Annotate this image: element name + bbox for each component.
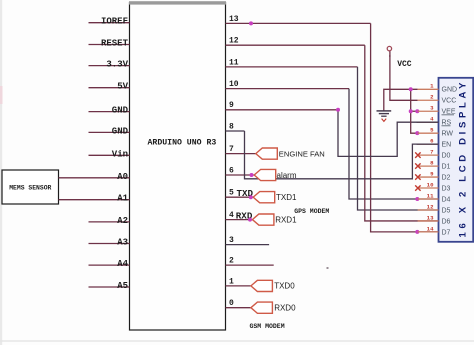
svg-text:RESET: RESET [101,39,129,49]
pin 6 (Arduino right) [226,166,255,175]
pin 11 (Arduino right) [226,58,358,67]
pin A5 (Arduino left) [89,281,130,291]
pin A0 (Arduino left) [89,172,130,182]
terminal alarm [254,169,297,180]
wire LCD pin1 GND [384,89,418,111]
svg-text:2: 2 [430,94,434,101]
pin Vin (Arduino left) [89,149,130,159]
svg-text:7: 7 [430,149,434,156]
pin RESET (Arduino left) [89,39,130,49]
svg-text:D0: D0 [442,153,451,160]
module LCD1 16x2 LCD DISPLAY body [439,78,474,242]
junction on D4 wire [415,197,419,201]
LCD pin 13 D6 [418,214,451,225]
pin 3.3V (Arduino left) [89,60,130,70]
LCD pin 8 D1 [418,159,451,170]
wire pin10 to LCD D4 [349,89,439,199]
svg-text:D1: D1 [442,163,451,170]
svg-text:A2: A2 [117,216,128,226]
svg-text:ENGINE FAN: ENGINE FAN [279,149,325,158]
svg-text:9: 9 [229,101,234,110]
svg-text:A4: A4 [117,259,128,269]
svg-text:5: 5 [229,189,234,198]
wire MEMS to A0 [59,177,89,179]
pin 7 (Arduino right) [226,145,256,154]
svg-text:ARDUINO UNO R3: ARDUINO UNO R3 [148,139,217,148]
pin IOREF (Arduino left) [89,17,130,27]
LCD pin 10 D3 [418,181,451,192]
svg-text:11: 11 [229,58,239,67]
svg-text:6: 6 [229,166,234,175]
junction TXD1 tip [249,195,253,199]
pin 5V (Arduino left) [89,82,130,92]
LCD pin 2 VCC [418,94,457,105]
module U1 ARDUINO UNO R3 body [130,3,226,331]
svg-text:12: 12 [427,203,434,210]
pin A1 (Arduino left) [89,194,130,204]
wire VCC to LCD pin2 [390,55,418,100]
terminal TXD1 [253,192,297,203]
junction VEE row [409,109,413,113]
svg-text:GND: GND [112,126,129,136]
svg-text:MEMS SENSOR: MEMS SENSOR [9,184,51,191]
pin 3 (Arduino right) [226,236,270,245]
svg-text:A3: A3 [117,238,128,248]
wire EN overlay [417,143,439,145]
pin A3 (Arduino left) [89,238,130,248]
terminal RXD0 [251,302,296,313]
svg-text:3.3V: 3.3V [106,60,128,70]
junction on D7 wire [415,230,419,234]
svg-text:13: 13 [427,214,434,221]
svg-text:8: 8 [430,159,434,166]
no-connect X on LCD D0 [415,152,420,157]
junction on pin 9 corner [336,108,340,112]
pin 4 (Arduino right) [226,211,253,220]
svg-text:D2: D2 [442,174,451,181]
svg-text:12: 12 [229,37,239,46]
svg-text:11: 11 [427,192,434,199]
terminal RXD1 [252,214,297,225]
pin 1 (Arduino right) [226,277,251,286]
pin 9 (Arduino right) [226,101,339,110]
ground [377,111,392,122]
svg-text:VCC: VCC [442,98,457,105]
svg-text:RXD0: RXD0 [274,304,296,313]
svg-text:13: 13 [229,15,239,24]
svg-text:5: 5 [430,127,434,134]
svg-text:10: 10 [229,80,239,89]
svg-text:A5: A5 [117,281,128,291]
svg-text:10: 10 [427,181,434,188]
junction GND/VEE vertical top [409,87,413,91]
LCD pin 3 VEE [418,105,456,116]
wire pin11 to LCD D5 [358,67,439,210]
no-connect X on LCD D3 [415,185,420,190]
pin GND (Arduino left) [89,126,130,136]
wire pin9 to LCD RS [338,110,439,157]
svg-text:9: 9 [430,170,434,177]
LCD pin 6 EN [418,138,452,149]
svg-text:A1: A1 [117,194,128,204]
junction RXD1 tip [248,218,252,222]
svg-text:2: 2 [229,257,234,266]
svg-text:alarm: alarm [277,171,297,180]
svg-text:IOREF: IOREF [101,17,128,27]
svg-text:D7: D7 [442,229,451,236]
LCD pin 9 D2 [418,170,451,181]
pin 12 (Arduino right) [226,37,365,46]
svg-text:Vin: Vin [112,149,128,159]
svg-text:0: 0 [229,299,234,308]
decor [0,0,2,345]
wire RS overlay [417,121,439,123]
svg-text:7: 7 [229,145,234,154]
terminal TXD0 [251,280,295,291]
LCD pin 14 D7 [418,225,451,236]
svg-text:D3: D3 [442,185,451,192]
wire MEMS to A1 [59,199,89,201]
MEMS sensor module [2,170,59,204]
LCD pin 1 GND [418,83,457,94]
no-connect X on LCD D1 [415,163,420,168]
pin A2 (Arduino left) [89,216,130,226]
junction VEE stub tip [415,109,419,113]
pin 2 (Arduino right) [226,257,274,266]
svg-text:16 X 2 LCD DISPLAY: 16 X 2 LCD DISPLAY [458,82,469,238]
pin GND (Arduino left) [89,106,130,116]
pin A4 (Arduino left) [89,259,130,269]
svg-text:GSM MODEM: GSM MODEM [250,323,285,330]
svg-text:D5: D5 [442,207,451,214]
svg-text:VCC: VCC [397,60,412,69]
svg-text:1: 1 [430,83,434,90]
junction alarm tip [250,173,254,177]
pin 8 (Arduino right) [226,122,245,131]
svg-text:8: 8 [229,122,234,131]
svg-text:D4: D4 [442,196,451,203]
pin 10 (Arduino right) [226,80,350,89]
svg-text:5V: 5V [117,82,128,92]
svg-text:EN: EN [442,142,452,149]
junction on pin 13 wire [249,21,253,25]
svg-text:3: 3 [430,105,434,112]
power VCC [387,46,412,69]
wire pin13 to LCD D7 [371,23,439,232]
svg-text:TXD0: TXD0 [274,282,295,291]
LCD pin 11 D4 [418,192,451,203]
pin 13 (Arduino right) [226,15,371,24]
wire VEE branch [411,110,418,112]
svg-text:A0: A0 [117,172,128,182]
svg-text:14: 14 [427,225,434,232]
wire pin8 to LCD EN [245,131,439,179]
stray mark [327,267,329,269]
pin 0 (Arduino right) [226,299,251,308]
svg-text:RXD1: RXD1 [275,215,297,224]
wire GND to VEE to RW [411,89,418,133]
terminal ENGINE FAN [256,148,325,159]
pin 5 (Arduino right) [226,189,254,198]
svg-text:GND: GND [112,106,129,116]
no-connect X on LCD D2 [415,174,420,179]
svg-text:D6: D6 [442,218,451,225]
wire pin12 to LCD D6 [365,45,439,221]
svg-text:3: 3 [229,236,234,245]
svg-text:TXD1: TXD1 [276,193,297,202]
svg-text:RW: RW [442,131,454,138]
svg-text:4: 4 [229,211,234,220]
svg-text:1: 1 [229,277,234,286]
junction RW stub tip [415,131,419,135]
svg-text:GND: GND [442,87,458,94]
LCD pin 4 RS [418,116,452,127]
svg-text:GPS MODEM: GPS MODEM [294,208,329,215]
LCD pin 7 D0 [418,149,451,160]
LCD pin 12 D5 [418,203,451,214]
LCD pin 5 RW [418,127,454,138]
